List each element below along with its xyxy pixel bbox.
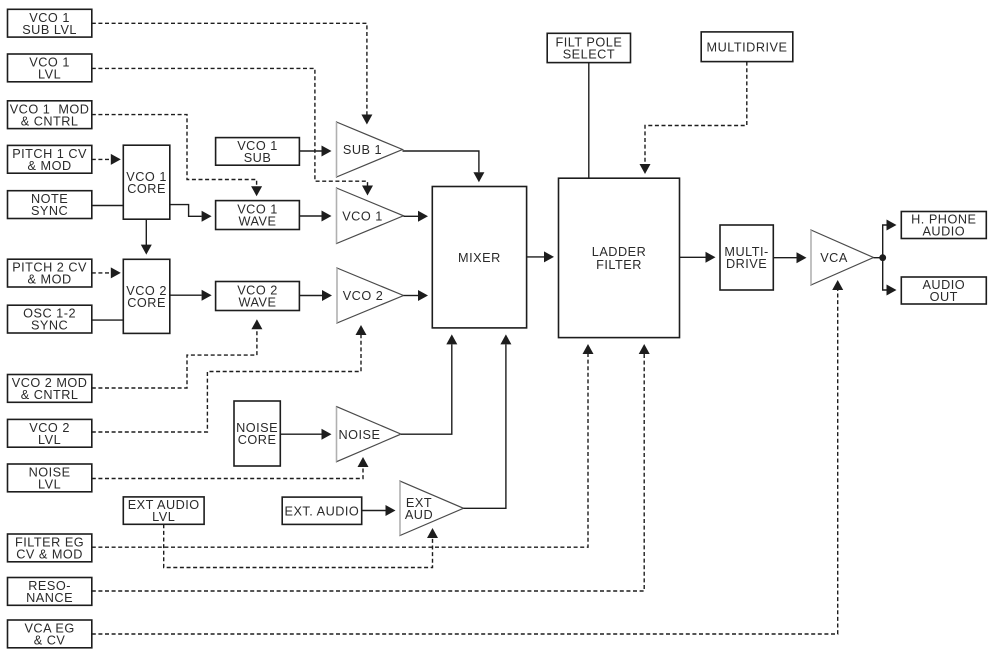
amp SUB 1 bbox=[337, 122, 403, 177]
box VCO 1 CORE bbox=[123, 145, 170, 219]
amp VCO 2 bbox=[337, 268, 404, 323]
svg-text:EXT. AUDIO: EXT. AUDIO bbox=[284, 504, 359, 518]
box MULTIDRIVE top bbox=[701, 32, 793, 62]
arrow into VCO 1 WAVE left bbox=[202, 211, 212, 222]
svg-text:CV & MOD: CV & MOD bbox=[16, 548, 83, 562]
wire VCO 2 WAVE to VCO 2 amp bbox=[299, 295, 322, 297]
wire NOTE SYNC to VCO 1 CORE bbox=[92, 205, 124, 207]
dashed PITCH 1 CV to VCO 1 CORE bbox=[92, 158, 111, 160]
svg-text:LVL: LVL bbox=[38, 68, 61, 82]
wire VCO 1 CORE to VCO 2 CORE bbox=[145, 219, 147, 245]
box EXT. AUDIO bbox=[282, 497, 362, 524]
box VCO 2 MOD &amp; CNTRL bbox=[8, 375, 92, 403]
box MULTI-DRIVE bbox=[720, 225, 773, 290]
dashed EXT AUDIO LVL to EXT AUD amp bbox=[164, 524, 433, 567]
arrow into VCO 2 CORE top bbox=[141, 245, 152, 255]
svg-text:FILTER: FILTER bbox=[596, 258, 642, 272]
arrow into VCA amp bottom bbox=[832, 280, 843, 290]
wire VCO 1 amp to MIXER bbox=[404, 215, 419, 217]
arrow into EXT AUD amp bbox=[386, 505, 396, 516]
svg-text:SYNC: SYNC bbox=[31, 319, 68, 333]
wire junction to AUDIO OUT bbox=[883, 258, 887, 290]
arrow into LADDER FILTER left bbox=[544, 251, 554, 262]
junction node bbox=[879, 254, 886, 261]
wire EXT. AUDIO to EXT AUD amp bbox=[362, 510, 386, 512]
wire junction to H. PHONE AUDIO bbox=[883, 225, 887, 258]
svg-text:& MOD: & MOD bbox=[28, 273, 72, 287]
dashed RESONANCE to LADDER FILTER bbox=[92, 354, 644, 591]
svg-text:LADDER: LADDER bbox=[592, 245, 646, 259]
wire VCO 1 SUB to SUB 1 bbox=[299, 150, 321, 152]
wire NOISE CORE to NOISE amp bbox=[280, 433, 321, 435]
box VCO 1 SUB bbox=[216, 138, 300, 166]
dashed VCO 1 LVL to VCO 1 amp bbox=[92, 68, 368, 185]
arrow into NOISE amp bottom bbox=[358, 457, 369, 467]
svg-text:MIXER: MIXER bbox=[458, 251, 501, 265]
arrow into VCO 1 WAVE top bbox=[251, 186, 262, 196]
wire MIXER to LADDER FILTER bbox=[527, 256, 544, 258]
box FILT POLE SELECT bbox=[547, 33, 630, 62]
box OSC 1-2 SYNC bbox=[8, 305, 92, 333]
box MIXER bbox=[432, 187, 526, 328]
svg-text:CORE: CORE bbox=[127, 296, 166, 310]
svg-text:VCO 1: VCO 1 bbox=[342, 209, 383, 223]
wire MULTI-DRIVE to VCA bbox=[773, 257, 796, 259]
box PITCH 1 CV &amp; MOD bbox=[8, 145, 92, 173]
svg-text:CORE: CORE bbox=[238, 433, 277, 447]
arrow into AUDIO OUT bbox=[887, 285, 897, 296]
arrow into MIXER left upper bbox=[418, 211, 428, 222]
svg-text:VCA: VCA bbox=[820, 251, 848, 265]
svg-text:CORE: CORE bbox=[127, 182, 166, 196]
arrow into SUB 1 amp bbox=[322, 146, 332, 157]
dashed VCO 1 SUB LVL to SUB 1 amp bbox=[92, 23, 367, 114]
arrow into MIXER top bbox=[473, 172, 484, 182]
svg-text:LVL: LVL bbox=[38, 433, 61, 447]
box VCO 1 MOD &amp; CNTRL bbox=[8, 101, 92, 129]
arrow into VCA amp bbox=[797, 252, 807, 263]
arrow into VCO 1 amp top bbox=[362, 186, 373, 196]
amp NOISE bbox=[337, 407, 402, 462]
svg-text:WAVE: WAVE bbox=[239, 296, 277, 310]
amp VCO 1 bbox=[337, 188, 404, 244]
svg-text:WAVE: WAVE bbox=[239, 215, 277, 229]
svg-text:NOISE: NOISE bbox=[339, 428, 381, 442]
arrow into MIXER left lower bbox=[418, 290, 428, 301]
wire EXT AUD amp to MIXER bottom bbox=[464, 344, 506, 508]
box AUDIO OUT bbox=[901, 277, 986, 304]
box VCO 2 WAVE bbox=[216, 282, 300, 311]
svg-text:& CNTRL: & CNTRL bbox=[21, 388, 79, 402]
arrow into H. PHONE AUDIO bbox=[887, 220, 897, 231]
box PITCH 2 CV &amp; MOD bbox=[8, 259, 92, 287]
dashed VCA EG to VCA amp bbox=[92, 290, 838, 634]
box EXT AUDIO LVL bbox=[123, 497, 204, 524]
box VCO 2 LVL bbox=[8, 419, 92, 447]
arrow into NOISE amp bbox=[322, 429, 332, 440]
svg-text:AUD: AUD bbox=[405, 508, 433, 522]
svg-text:SUB 1: SUB 1 bbox=[343, 143, 382, 157]
svg-text:& MOD: & MOD bbox=[28, 159, 72, 173]
box NOISE LVL bbox=[8, 464, 92, 492]
box VCO 1 SUB LVL bbox=[8, 9, 92, 37]
svg-text:SYNC: SYNC bbox=[31, 204, 68, 218]
arrow into LADDER FILTER top bbox=[640, 164, 651, 174]
dashed VCO 2 MOD to VCO 2 WAVE bbox=[92, 329, 257, 388]
svg-text:DRIVE: DRIVE bbox=[726, 257, 767, 271]
box VCO 2 CORE bbox=[123, 259, 170, 333]
wire VCA to junction bbox=[874, 257, 883, 259]
arrow into LADDER FILTER bottom right bbox=[639, 344, 650, 354]
wire VCO 1 WAVE to VCO 1 amp bbox=[299, 215, 321, 217]
amp EXT AUD bbox=[400, 481, 464, 535]
arrow into VCO 2 WAVE left bbox=[202, 290, 212, 301]
box VCO 1 LVL bbox=[8, 54, 92, 82]
arrow into VCO 2 amp bottom bbox=[356, 325, 367, 335]
svg-text:& CV: & CV bbox=[34, 634, 66, 648]
arrow into VCO 2 WAVE bottom bbox=[251, 319, 262, 329]
arrow into LADDER FILTER bottom left bbox=[583, 344, 594, 354]
wire VCO 2 CORE to VCO 2 WAVE bbox=[170, 294, 202, 296]
wire FILT POLE SELECT to LADDER FILTER bbox=[588, 63, 590, 179]
dashed MULTIDRIVE to LADDER FILTER bbox=[645, 62, 747, 164]
wire VCO 1 CORE to VCO 1 WAVE bbox=[170, 205, 202, 217]
box FILTER EG CV &amp; MOD bbox=[8, 534, 92, 562]
svg-text:LVL: LVL bbox=[38, 478, 61, 492]
arrow into VCO 2 CORE left bbox=[111, 267, 121, 278]
arrow into MULTI-DRIVE left bbox=[706, 252, 716, 263]
svg-text:SELECT: SELECT bbox=[563, 48, 615, 62]
svg-text:MULTIDRIVE: MULTIDRIVE bbox=[707, 40, 788, 54]
arrow into VCO 1 amp bbox=[322, 211, 332, 222]
svg-text:VCO 2: VCO 2 bbox=[343, 289, 384, 303]
arrow into MIXER bottom left bbox=[446, 334, 457, 344]
wire LADDER FILTER to MULTI-DRIVE bbox=[680, 256, 706, 258]
dashed PITCH 2 CV to VCO 2 CORE bbox=[92, 272, 111, 274]
dashed VCO 1 MOD to VCO 1 WAVE bbox=[92, 115, 257, 187]
box NOTE SYNC bbox=[8, 191, 92, 219]
arrow into SUB 1 top bbox=[361, 115, 372, 125]
svg-text:OUT: OUT bbox=[930, 290, 958, 304]
svg-text:SUB LVL: SUB LVL bbox=[22, 23, 77, 37]
svg-text:SUB: SUB bbox=[244, 151, 272, 165]
svg-text:LVL: LVL bbox=[152, 510, 175, 524]
arrow into MIXER bottom right bbox=[500, 334, 511, 344]
box NOISE CORE bbox=[234, 401, 280, 466]
wire NOISE amp to MIXER bottom bbox=[401, 344, 452, 434]
dashed NOISE LVL to NOISE amp bbox=[92, 467, 363, 479]
wire VCO 2 amp to MIXER bbox=[404, 295, 419, 297]
dashed VCO 2 LVL to VCO 2 amp bbox=[92, 335, 361, 432]
arrow into EXT AUD amp bottom bbox=[427, 528, 438, 538]
wire SUB 1 out to MIXER top bbox=[403, 151, 479, 172]
box H. PHONE AUDIO bbox=[901, 212, 986, 239]
amp VCA bbox=[811, 230, 874, 285]
arrow into VCO 2 amp bbox=[322, 290, 332, 301]
svg-text:AUDIO: AUDIO bbox=[922, 225, 965, 239]
box LADDER FILTER bbox=[559, 178, 680, 337]
svg-text:& CNTRL: & CNTRL bbox=[21, 114, 79, 128]
arrow into VCO 1 CORE left bbox=[111, 154, 121, 165]
svg-text:NANCE: NANCE bbox=[26, 591, 73, 605]
box RESONANCE bbox=[8, 578, 92, 606]
box VCA EG &amp; CV bbox=[8, 620, 92, 648]
dashed FILTER EG to LADDER FILTER bbox=[92, 354, 588, 547]
wire OSC 1-2 SYNC to VCO 2 CORE bbox=[92, 319, 124, 321]
box VCO 1 WAVE bbox=[216, 201, 300, 230]
